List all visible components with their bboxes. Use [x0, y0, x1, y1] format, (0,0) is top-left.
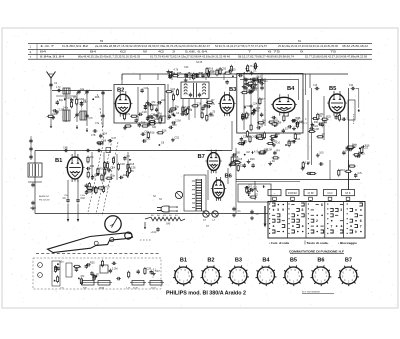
- svg-text:B6: B6: [225, 174, 233, 180]
- svg-text:R16: R16: [141, 122, 146, 125]
- svg-text:2.2M: 2.2M: [266, 149, 272, 152]
- svg-text:C47: C47: [155, 270, 160, 273]
- svg-text:1M: 1M: [285, 115, 288, 118]
- svg-text:61.73,79.45,48.72,82.14,15a,27: 61.73,79.45,48.72,82.14,15a,27,93.98,64.…: [150, 56, 231, 59]
- svg-text:86a,46,40,35,15a,35,43a,61,7.2: 86a,46,40,35,15a,35,43a,61,7.25,35.91,16…: [78, 56, 141, 59]
- svg-text:C36: C36: [131, 167, 136, 170]
- svg-text:4156: 4156: [151, 288, 157, 290]
- svg-text:C4B: C4B: [63, 147, 68, 150]
- svg-text:2.2M: 2.2M: [305, 162, 311, 165]
- svg-text:+C10: +C10: [151, 231, 157, 234]
- svg-text:x: x: [39, 275, 40, 277]
- svg-text:PHILIPS mod. BI 380/A Aral: PHILIPS mod. BI 380/A Araldo 2: [166, 290, 246, 296]
- svg-text:2: 2: [316, 219, 318, 223]
- svg-text:5.68, 6.64: 5.68, 6.64: [185, 50, 208, 53]
- svg-text:B4: B4: [262, 258, 270, 264]
- svg-text:FONO: FONO: [288, 191, 297, 195]
- svg-text:~: ~: [274, 191, 276, 195]
- svg-text:8.84a,91.84: 8.84a,91.84: [40, 56, 65, 59]
- svg-text:38.32,25.86,48,22: 38.32,25.86,48,22: [342, 45, 369, 48]
- svg-text:• Bloccaggio: • Bloccaggio: [338, 241, 357, 245]
- svg-text:10n: 10n: [59, 261, 64, 264]
- svg-text:C10a: C10a: [80, 195, 86, 197]
- svg-text:xx + xxx xxxxxxx: xx + xxx xxxxxxx: [302, 291, 321, 294]
- svg-text:2.2M: 2.2M: [59, 108, 65, 111]
- svg-text:M F: M F: [345, 191, 350, 195]
- svg-text:C18: C18: [52, 113, 57, 116]
- svg-text:100: 100: [246, 89, 251, 92]
- svg-text:10n: 10n: [297, 133, 302, 136]
- svg-text:2.2M: 2.2M: [175, 119, 181, 122]
- svg-text:10n: 10n: [263, 80, 268, 83]
- svg-text:B3: B3: [235, 258, 242, 264]
- svg-text:R25: R25: [95, 96, 100, 99]
- svg-text:C24: C24: [111, 167, 116, 170]
- svg-text:25,92,29a,15,34,47,43.60,62,93: 25,92,29a,15,34,47,43.60,62,93,41.22,40.…: [278, 45, 339, 48]
- svg-text:C18: C18: [295, 138, 300, 141]
- svg-text:4.7k: 4.7k: [357, 172, 362, 175]
- svg-text:8: 8: [302, 208, 304, 212]
- svg-text:100: 100: [236, 151, 241, 154]
- svg-text:B6: B6: [317, 258, 324, 264]
- svg-text:C12: C12: [219, 69, 224, 72]
- svg-text:220: 220: [161, 99, 166, 102]
- svg-text:O.C: O.C: [327, 191, 333, 195]
- svg-text:S40: S40: [152, 127, 157, 129]
- svg-text:C7b: C7b: [89, 118, 94, 120]
- svg-text:B7: B7: [345, 258, 352, 264]
- svg-text:B5: B5: [329, 86, 337, 92]
- svg-text:100: 100: [255, 110, 260, 113]
- svg-text:C7a: C7a: [95, 123, 100, 125]
- svg-text:C18: C18: [94, 174, 99, 177]
- svg-text:Tasto di onda.: Tasto di onda.: [307, 241, 329, 245]
- svg-text:220: 220: [240, 165, 245, 168]
- svg-text:C15: C15: [66, 97, 71, 100]
- svg-text:50p: 50p: [111, 175, 116, 178]
- svg-text:1.0.7: 1.0.7: [40, 45, 56, 48]
- svg-text:C47: C47: [144, 87, 149, 90]
- svg-text:C47: C47: [111, 137, 116, 140]
- svg-text:7: 7: [331, 224, 333, 228]
- svg-text:B2: B2: [207, 258, 214, 264]
- svg-text:S4 05: S4 05: [196, 61, 203, 64]
- svg-text:4.7k: 4.7k: [254, 150, 259, 153]
- svg-text:2a,24,98a,28,88.27,15.39,92.28: 2a,24,98a,28,88.27,15.39,92.28,95.94,8.3…: [95, 45, 211, 48]
- svg-text:S40: S40: [166, 223, 171, 226]
- svg-text:6: 6: [360, 219, 362, 223]
- svg-text:B2: B2: [117, 88, 124, 94]
- svg-text:C36: C36: [256, 107, 261, 110]
- svg-text:C18: C18: [142, 111, 147, 114]
- svg-text:C23: C23: [184, 66, 189, 69]
- svg-text:1M: 1M: [246, 151, 249, 154]
- svg-text:R25: R25: [231, 69, 236, 72]
- svg-text:4.7k: 4.7k: [173, 68, 178, 71]
- svg-text:6 75: 6 75: [268, 50, 281, 53]
- svg-text:C29: C29: [146, 268, 151, 271]
- svg-text:R18: R18: [172, 108, 177, 111]
- svg-text:8: 8: [321, 203, 323, 207]
- svg-text:2.2M: 2.2M: [112, 268, 118, 271]
- svg-text:○: ○: [152, 275, 154, 279]
- svg-text:R16: R16: [162, 129, 167, 132]
- svg-text:O M: O M: [308, 191, 314, 195]
- svg-text:• Cont. di onda: • Cont. di onda: [269, 241, 290, 245]
- svg-text:AERN INT: AERN INT: [39, 195, 50, 198]
- svg-text:R25: R25: [326, 116, 331, 119]
- svg-text:C47: C47: [252, 136, 257, 139]
- svg-text:52.77,25,88,60,69,42.57,16.54,: 52.77,25,88,60,69,42.57,16.54,96.47,89a,…: [305, 56, 368, 59]
- svg-text:C24: C24: [150, 121, 155, 124]
- svg-text:R16: R16: [250, 158, 255, 161]
- svg-text:B5: B5: [290, 258, 297, 264]
- svg-text:R16: R16: [246, 70, 251, 73]
- svg-text:C12: C12: [253, 186, 258, 189]
- svg-text:50p: 50p: [153, 104, 158, 107]
- svg-text:9: 9: [282, 208, 284, 212]
- svg-text:R31: R31: [90, 165, 95, 168]
- svg-text:C24: C24: [253, 103, 258, 106]
- svg-text:2.2M: 2.2M: [313, 128, 319, 131]
- svg-text:1.72: 1.72: [56, 87, 61, 89]
- svg-text:B4: B4: [287, 86, 295, 92]
- svg-text:5: 5: [277, 208, 279, 212]
- svg-text:R16: R16: [365, 144, 370, 147]
- svg-text:C10: C10: [81, 197, 86, 200]
- svg-text:R31: R31: [314, 121, 319, 124]
- svg-text:C52: C52: [154, 114, 159, 117]
- svg-text:C3.80,91.82: C3.80,91.82: [62, 45, 89, 48]
- svg-text:COMMUTATORE DI FUNZIONE H.F: COMMUTATORE DI FUNZIONE H.F: [289, 250, 344, 254]
- svg-text:FM 206.58: FM 206.58: [39, 200, 50, 202]
- svg-text:C16: C16: [313, 85, 318, 87]
- svg-text:R16: R16: [150, 132, 155, 135]
- svg-text:C52: C52: [174, 136, 179, 139]
- svg-text:C15: C15: [257, 76, 262, 79]
- svg-text:R16: R16: [340, 169, 345, 172]
- svg-text:1M: 1M: [352, 144, 355, 147]
- svg-text:R25: R25: [90, 261, 95, 264]
- svg-text:9: 9: [355, 230, 357, 234]
- svg-text:x: x: [39, 265, 40, 267]
- svg-text:C47: C47: [272, 140, 277, 143]
- svg-text:R18: R18: [210, 70, 215, 73]
- svg-text:C4a: C4a: [80, 89, 85, 91]
- svg-text:4.7k: 4.7k: [210, 103, 215, 106]
- svg-text:C36: C36: [198, 72, 203, 75]
- svg-text:50p: 50p: [59, 99, 64, 102]
- svg-text:C18: C18: [102, 139, 107, 142]
- svg-text:4.7k: 4.7k: [248, 65, 253, 68]
- svg-text:220: 220: [288, 142, 293, 145]
- svg-text:54.94,71.16,24,27,27.58,4.77,5: 54.94,71.16,24,27,27.58,4.77,57,37,27a,5…: [215, 45, 268, 48]
- svg-text:R16: R16: [209, 68, 214, 71]
- svg-text:B7: B7: [198, 154, 205, 160]
- svg-text:C24: C24: [171, 88, 176, 91]
- svg-text:B3: B3: [229, 87, 237, 93]
- svg-text:3: 3: [340, 208, 342, 212]
- svg-text:100: 100: [319, 152, 324, 155]
- svg-text:58.15,17.82,79.88,27.48,89.80,: 58.15,17.82,79.88,27.48,89.80,59.98,66.7…: [238, 56, 295, 59]
- svg-text:R25: R25: [360, 153, 365, 156]
- svg-text:B1: B1: [55, 158, 63, 164]
- svg-text:R25: R25: [177, 72, 182, 75]
- svg-text:C18: C18: [247, 105, 252, 108]
- svg-text:B1: B1: [180, 258, 187, 264]
- svg-text:4138: 4138: [133, 288, 139, 290]
- svg-text:C12: C12: [243, 136, 248, 139]
- svg-text:C18: C18: [120, 163, 125, 166]
- svg-text:B6: B6: [100, 39, 104, 43]
- svg-text:C7B: C7B: [91, 135, 96, 137]
- svg-text:7: 7: [360, 224, 362, 228]
- svg-text:C34: C34: [349, 85, 354, 87]
